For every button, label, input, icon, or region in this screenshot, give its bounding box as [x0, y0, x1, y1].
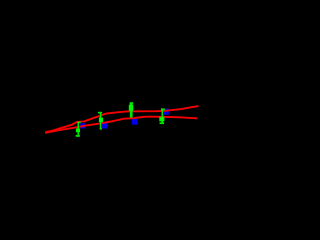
- green data point P2: bottom cap: [100, 128, 102, 129]
- green data point P3: top cap: [130, 102, 134, 104]
- green data point P3: square marker: [129, 105, 134, 111]
- green data point P3: error bar stem: [130, 103, 133, 118]
- blue square marker B2: [102, 123, 107, 129]
- green data point P1: square marker: [76, 129, 80, 133]
- green data point P4: bottom cap: [160, 122, 164, 124]
- green data point P1: top cap: [77, 122, 81, 124]
- blue square marker B1: [80, 123, 85, 128]
- green data point P2: square marker: [99, 118, 103, 123]
- blue square marker B3: [132, 119, 138, 125]
- blue square marker B4: [164, 109, 169, 115]
- red fit curve B (lower): [45, 117, 197, 133]
- green data point P4: top cap: [161, 108, 165, 110]
- green data point P1: bottom cap: [76, 135, 80, 137]
- green data point P1: error bar stem: [78, 122, 80, 135]
- green data point P4: square marker: [159, 117, 164, 122]
- red fit curve A (upper): [45, 106, 198, 132]
- green data point P2: error bar stem: [100, 113, 102, 130]
- green data point P2: top cap: [98, 112, 102, 114]
- green data point P4: error bar stem: [162, 109, 164, 123]
